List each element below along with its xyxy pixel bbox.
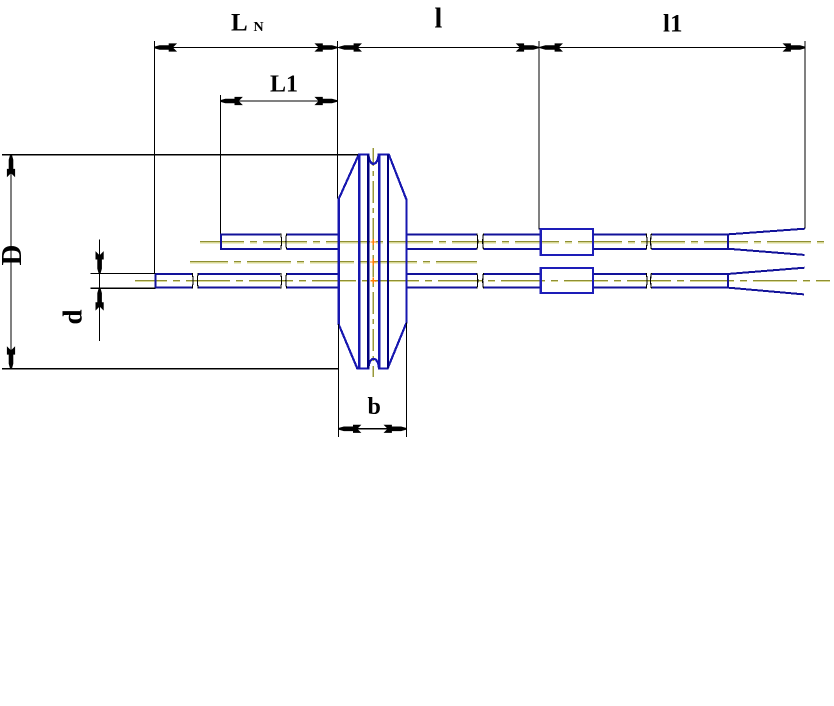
lower rod right segment 4 (652, 273, 729, 289)
lower rod right segment 2 (484, 274, 540, 288)
break mark lower rod 3 (477, 273, 484, 289)
arrow l1 left (541, 44, 563, 51)
extension line b left (337, 324, 339, 437)
svg-text:L1: L1 (270, 72, 298, 98)
upper rod right segment 2 (484, 234, 540, 249)
break mark upper rod 1 (281, 234, 287, 250)
arrow d lower (96, 288, 103, 310)
upper rod left segment 2 (287, 234, 339, 249)
upper rod left segment 1 (220, 233, 280, 250)
svg-text:b: b (368, 394, 381, 420)
dimension line top chain (155, 47, 806, 49)
centerline lower rod axis (135, 279, 830, 281)
svg-text:l1: l1 (663, 11, 682, 38)
extension line l1 right (804, 41, 806, 229)
svg-text:N: N (254, 20, 264, 35)
arrow D bottom (7, 347, 14, 369)
arrow LN right (315, 44, 337, 51)
centerline middle axis (190, 261, 477, 263)
dimension line D (10, 155, 12, 369)
upper coupling block (541, 229, 593, 255)
arrow l1 right (784, 44, 806, 51)
break mark lower rod 2 (281, 273, 287, 289)
svg-text:L: L (231, 10, 248, 37)
upper rod right segment 4 (652, 233, 729, 250)
lower rod left segment 1 (155, 273, 192, 289)
dimension line L1 (220, 100, 337, 102)
arrow LN left (155, 44, 177, 51)
arrow b left (339, 425, 361, 432)
extension line d top (90, 273, 155, 275)
orange center mark middle (370, 259, 377, 266)
lower coupling block (541, 268, 593, 293)
centerline upper rod axis (200, 241, 830, 243)
arrow L1 left (220, 97, 242, 104)
upper rod right segment 3 (593, 234, 645, 249)
insulator inner line 2 (367, 155, 369, 369)
extension line component left face (337, 41, 339, 199)
orange center mark lower (370, 278, 376, 284)
arrow l right (517, 44, 539, 51)
lower rod right segment 1 (408, 274, 477, 288)
orange center mark upper (370, 239, 376, 245)
dimension line d (99, 240, 101, 341)
extension line d bottom (90, 287, 155, 289)
extension line D bottom (2, 368, 339, 370)
insulator inner line 4 (387, 155, 389, 369)
arrow L1 right (315, 97, 337, 104)
lower rod left segment 3 (287, 274, 339, 288)
break mark upper rod 2 (477, 234, 484, 250)
svg-text:d: d (58, 309, 88, 324)
dimension line b (338, 428, 406, 430)
arrow b right (385, 425, 407, 432)
arrow l left (340, 44, 362, 51)
arrow d upper (96, 252, 103, 274)
insulator inner line 3 (378, 155, 380, 369)
extension line L1 left (219, 95, 221, 233)
extension line b right (406, 322, 408, 437)
extension line l right (538, 41, 540, 230)
lower wire fork (729, 268, 805, 295)
break mark lower rod 1 (192, 273, 198, 289)
arrow D top (7, 155, 14, 177)
insulator head outer profile (339, 155, 407, 369)
upper wire fork (729, 229, 805, 255)
svg-text:l: l (435, 4, 443, 35)
extension line LN left (154, 41, 156, 274)
lower rod left segment 2 (199, 274, 281, 288)
lower rod right segment 3 (593, 274, 645, 288)
extension line D top (2, 154, 358, 156)
insulator inner line 1 (358, 155, 360, 369)
break mark lower rod 4 (646, 273, 651, 289)
break mark upper rod 3 (646, 234, 651, 250)
upper rod right segment 1 (408, 234, 477, 249)
svg-text:D: D (0, 245, 28, 266)
centerline component vertical axis (372, 148, 374, 377)
